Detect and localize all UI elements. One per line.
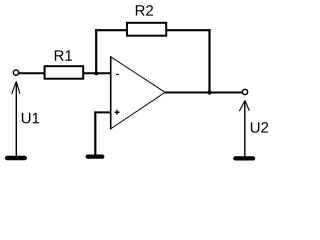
label R1 xyxy=(55,50,72,60)
resistor R2 xyxy=(127,23,166,36)
label R2 xyxy=(136,5,153,15)
wire input terminal to R1 xyxy=(19,72,45,74)
wire R2 to right vertical xyxy=(166,29,210,31)
wire feedback right vertical down to output node xyxy=(208,29,210,93)
pin marker - (inverting input) xyxy=(116,74,119,75)
op-amp (triangle) xyxy=(111,56,166,129)
label U1 xyxy=(22,113,39,123)
label U2 xyxy=(251,122,268,133)
terminal output (open circle) xyxy=(242,89,247,94)
ground (input source) xyxy=(5,156,27,161)
terminal input (open circle) xyxy=(13,70,18,75)
voltage arrow U1 xyxy=(12,81,20,156)
wire feedback top left to R2 xyxy=(95,29,127,31)
wire non-inverting input to ground branch xyxy=(94,111,110,155)
wire op-amp output to terminal xyxy=(165,92,243,94)
pin marker + (non-inverting input) xyxy=(115,110,120,115)
ground (output) xyxy=(233,156,255,160)
junction inverting input node xyxy=(94,71,98,75)
voltage arrow U2 xyxy=(239,100,249,156)
wire feedback branch up from junction xyxy=(95,29,97,74)
junction output node xyxy=(207,90,211,94)
ground (non-inverting input) xyxy=(86,155,105,159)
resistor R1 xyxy=(45,66,84,79)
wire R1 to op-amp inverting input xyxy=(84,72,111,74)
